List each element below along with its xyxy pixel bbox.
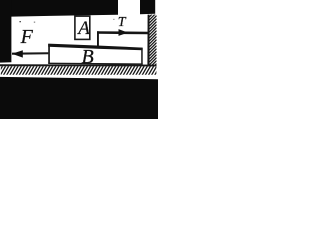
scan border: bottom black band [0, 77, 158, 119]
scan border: top-right black band [140, 0, 155, 14]
force F arrowhead [12, 50, 23, 57]
string / rope to wall [97, 31, 149, 34]
svg-text:F: F [20, 26, 34, 48]
block B right edge [141, 48, 143, 65]
scan border: top-left black band [0, 0, 118, 17]
ground line [0, 64, 157, 66]
string post on B [97, 31, 99, 46]
speck artifacts [19, 21, 21, 22]
ground hatching [0, 66, 160, 75]
force F line [12, 52, 48, 55]
block B top edge (thick, slightly sloped) [48, 44, 142, 51]
block B bottom edge [48, 63, 143, 65]
svg-text:B: B [82, 46, 94, 68]
block A outline [75, 16, 90, 39]
tension arrowhead T [119, 29, 129, 36]
svg-text:A: A [76, 18, 90, 39]
scan border: left black strip [0, 0, 11, 63]
block B left edge [48, 44, 50, 64]
svg-text:T: T [118, 15, 127, 30]
wall hatching [149, 10, 156, 71]
wall edge line [147, 15, 149, 67]
